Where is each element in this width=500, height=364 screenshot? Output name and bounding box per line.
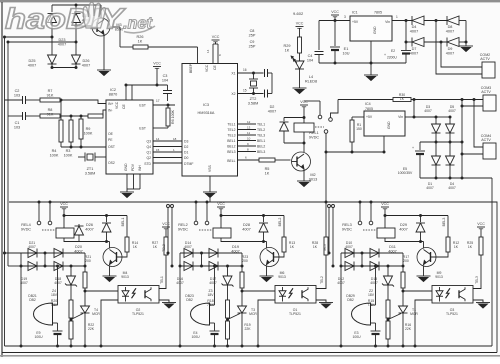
- wire R26 feed vertical: [119, 27, 121, 47]
- svg-text:DB2: DB2: [29, 298, 36, 302]
- node CH3 contact b: [369, 221, 373, 225]
- svg-text:VCC: VCC: [477, 222, 485, 226]
- svg-text:TEL3: TEL3: [257, 133, 265, 137]
- svg-text:D4: D4: [412, 25, 417, 29]
- wire IC4 Vin lead: [405, 116, 414, 118]
- svg-text:DTMF: DTMF: [184, 162, 193, 166]
- wire L2 to ch1 row2: [8, 265, 21, 267]
- svg-text:BEL1: BEL1: [257, 139, 265, 143]
- diode D19: [28, 262, 37, 271]
- junction O1 rail: [257, 345, 260, 348]
- svg-text:D23: D23: [59, 38, 66, 42]
- svg-text:1K: 1K: [454, 245, 459, 249]
- wire D26 bottom lead: [75, 64, 77, 68]
- junction CH2 mid row2: [200, 265, 203, 268]
- junction CH3 contact2 rail: [370, 201, 373, 204]
- wire CH1 bell bottom terminal: [53, 322, 58, 324]
- wire CH3 vcc top rail: [385, 215, 448, 217]
- wire R1 top lead: [351, 117, 353, 120]
- wire R6 bottom lead: [167, 126, 169, 128]
- diode D9: [447, 38, 459, 47]
- wire D23 to D25: [51, 23, 53, 56]
- wire CH3 contact1 stem: [359, 202, 361, 221]
- wire R16 to rail: [387, 339, 389, 346]
- svg-text:14: 14: [156, 137, 160, 141]
- wire VCC stem REL1: [303, 107, 305, 123]
- svg-text:CE: CE: [213, 65, 217, 70]
- wire CH1 flyback top lead: [106, 216, 108, 223]
- thyristor T1: [399, 306, 408, 313]
- wire C4 top lead: [318, 21, 320, 51]
- power VCC symbol REL2: [217, 202, 225, 209]
- wire VCC CE join: [213, 43, 218, 45]
- capacitor E5: [415, 151, 425, 154]
- junction E3 rail: [374, 345, 377, 348]
- wire R14 to base: [117, 252, 128, 257]
- wire bridge top rail: [52, 4, 101, 6]
- wire R9 bottom lead: [80, 139, 82, 147]
- svg-text:TEL2: TEL2: [320, 276, 324, 284]
- junction CH2 contact1 rail: [195, 201, 198, 204]
- wire M3 collector: [100, 5, 102, 18]
- svg-text:1K: 1K: [265, 171, 270, 175]
- junction bridge MR: [449, 141, 452, 144]
- svg-text:D0: D0: [184, 156, 188, 160]
- resistor R5a: [88, 114, 103, 118]
- junction E6 top: [405, 19, 408, 22]
- svg-text:BEL3: BEL3: [227, 150, 235, 154]
- node CH2 feed1 terminal: [167, 205, 170, 208]
- wire REL1 dashed actuator: [315, 126, 324, 128]
- junction CH2 contact2 rail: [206, 201, 209, 204]
- wire E4 to rail: [214, 334, 216, 346]
- label IC3 pin numbers top: [206, 49, 222, 56]
- resistor R18: [226, 300, 230, 318]
- svg-text:25P: 25P: [249, 44, 256, 48]
- wire C9 right lead: [268, 93, 273, 95]
- svg-text:haoDIY: haoDIY: [5, 4, 126, 36]
- wire net TEL2: [238, 129, 257, 131]
- wire O2 cathode return: [101, 300, 118, 346]
- diode D4: [412, 16, 424, 25]
- resistor R5: [259, 158, 275, 162]
- svg-text:100U: 100U: [191, 335, 200, 339]
- wire E5 bottom lead: [419, 154, 421, 178]
- resistor R21: [83, 272, 87, 288]
- svg-text:4007: 4007: [85, 227, 93, 231]
- junction CH2 feed1 row1: [167, 252, 170, 255]
- junction CH3 mid row2: [361, 265, 364, 268]
- watermark hand glyph: [83, 2, 105, 28]
- node REL1 contact NO: [329, 118, 333, 122]
- junction T3 rail: [241, 345, 244, 348]
- svg-text:4007: 4007: [345, 245, 353, 249]
- node CH3 contact a: [358, 221, 362, 225]
- wire VCC stem 5V: [334, 17, 336, 21]
- wire D4b top lead: [449, 142, 451, 156]
- svg-text:18V: 18V: [51, 293, 58, 297]
- svg-text:IC2: IC2: [110, 88, 116, 92]
- ground M9: [417, 276, 431, 282]
- junction E9 rail: [56, 345, 59, 348]
- diode D23: [48, 14, 57, 23]
- wire bridge feed vertical: [461, 100, 463, 179]
- wire COM3 pin2 feed: [462, 105, 483, 107]
- wire CH3 dashed actuator: [363, 229, 377, 231]
- diode D8: [447, 16, 459, 25]
- wire stack mid: [70, 318, 72, 321]
- svg-text:VCC: VCC: [296, 22, 304, 26]
- svg-text:103: 103: [14, 93, 20, 97]
- resistor R6: [166, 108, 170, 126]
- capacitor C9: [265, 90, 268, 98]
- wire R5 to M2 base: [275, 159, 291, 161]
- svg-text:4007: 4007: [426, 186, 434, 190]
- wire L4 to ground: [299, 69, 301, 88]
- wire D4 to D8: [424, 20, 447, 22]
- svg-text:C8: C8: [250, 29, 255, 33]
- wire CH1 scr branch top: [84, 253, 86, 272]
- svg-text:200: 200: [85, 259, 91, 263]
- svg-text:1K: 1K: [290, 245, 295, 249]
- wire R26 left lead: [120, 46, 133, 48]
- svg-text:18V: 18V: [207, 293, 214, 297]
- svg-text:D2: D2: [184, 145, 188, 149]
- svg-text:D25: D25: [29, 59, 36, 63]
- wire R23 to SCR: [241, 288, 243, 306]
- svg-text:R8: R8: [48, 108, 53, 112]
- junction CH3 opto tap: [402, 290, 405, 293]
- wire bridge bottom rail: [420, 177, 492, 179]
- svg-text:4007: 4007: [28, 63, 36, 67]
- crystal ZT1: [85, 153, 95, 162]
- wire input row2 left: [8, 115, 23, 117]
- svg-text:REL2: REL2: [178, 223, 188, 227]
- wire net TEL3: [238, 134, 257, 136]
- bell DB29: [352, 303, 371, 325]
- diode D25: [48, 55, 57, 64]
- junction bridge feed bottom: [461, 177, 464, 180]
- resistor R1: [350, 120, 354, 142]
- wire CH3 scr branch top: [402, 253, 404, 272]
- svg-text:TEL1: TEL1: [160, 276, 164, 284]
- wire E1 bottom lead: [334, 50, 336, 63]
- wire CH2 collector stub: [266, 242, 268, 249]
- junction O3 rail: [414, 345, 417, 348]
- svg-text:D26: D26: [83, 59, 90, 63]
- wire ZT1 right lead: [95, 156, 106, 158]
- wire to IN-: [103, 110, 106, 116]
- wire net BEL3: [238, 151, 257, 153]
- svg-text:+: +: [384, 53, 386, 57]
- wire REL1 contact feed: [304, 100, 320, 102]
- power VCC symbol LED: [296, 22, 304, 29]
- op-amp U-IC3 box HM9316A: [182, 64, 238, 177]
- junction row2 node: [405, 41, 408, 44]
- junction T1 rail: [402, 345, 405, 348]
- capacitor C8: [265, 69, 268, 77]
- wire M3 base: [76, 25, 92, 27]
- wire R3 bottom lead: [70, 142, 72, 147]
- svg-text:MCR: MCR: [249, 312, 257, 316]
- svg-text:ACTV: ACTV: [481, 90, 491, 94]
- svg-text:TEL3: TEL3: [227, 134, 235, 138]
- svg-text:VCC: VCC: [212, 35, 220, 39]
- ground M2: [297, 181, 311, 187]
- diode D3: [432, 124, 441, 133]
- wire R6 top lead: [167, 105, 169, 108]
- wire CH2 bell top terminal: [210, 304, 215, 306]
- svg-text:STD: STD: [144, 162, 151, 166]
- capacitor E1: [330, 47, 340, 50]
- junction T4 rail: [84, 345, 87, 348]
- transistor M9: [417, 248, 436, 267]
- junction E4 rail: [213, 345, 216, 348]
- junction CH3 contact1 rail: [359, 201, 362, 204]
- junction CH2 flyback top: [262, 214, 265, 217]
- junction CH3 feed1 row1: [328, 252, 331, 255]
- junction R9 top: [80, 115, 83, 118]
- wire CH3 emitter: [423, 266, 425, 277]
- wire CH1 collector stub: [109, 242, 111, 249]
- svg-text:TLP521: TLP521: [446, 312, 458, 316]
- svg-text:25P: 25P: [249, 33, 256, 37]
- junction M2 collector node: [303, 142, 306, 145]
- svg-text:C3: C3: [163, 74, 168, 78]
- junction CH2 gate node: [226, 318, 229, 321]
- svg-text:TEL2: TEL2: [257, 128, 265, 132]
- wire E2 top lead: [405, 21, 407, 51]
- capacitor E4: [210, 331, 220, 334]
- svg-text:GND: GND: [373, 26, 377, 34]
- wire right return vertical: [491, 178, 493, 346]
- wire CH3 flyback bottom lead: [420, 232, 422, 242]
- junction R16 rail: [387, 345, 390, 348]
- wire CH3 to opto anode: [403, 290, 432, 292]
- svg-text:1K: 1K: [133, 245, 138, 249]
- junction CH2 rail bottom: [179, 345, 182, 348]
- wire E9 to rail: [57, 334, 59, 346]
- wire CH3 contact2 stem: [370, 202, 372, 221]
- junction bridge TL: [435, 116, 438, 119]
- wire D2 vertical top: [283, 118, 285, 122]
- svg-text:BEL2: BEL2: [278, 218, 282, 227]
- junction CH1 flyback top: [105, 214, 108, 217]
- diode D13: [370, 262, 379, 271]
- svg-text:1000/35V: 1000/35V: [398, 171, 413, 175]
- svg-text:100K: 100K: [64, 153, 73, 157]
- resistor R12: [446, 237, 450, 252]
- svg-text:+: +: [412, 146, 414, 150]
- wire C1 to R8: [26, 115, 41, 117]
- svg-text:L4: L4: [309, 75, 313, 79]
- wire D1 top lead: [435, 142, 437, 156]
- svg-text:BEL3: BEL3: [442, 218, 446, 227]
- crystal ZT2: [249, 79, 258, 88]
- wire data bus DTMF: [153, 162, 182, 164]
- wire R29 to L4: [299, 53, 301, 61]
- svg-text:9-602: 9-602: [293, 11, 304, 16]
- wire L2 to bridge: [8, 41, 76, 43]
- junction REL2 vcc node: [220, 214, 223, 217]
- wire D25 bottom lead: [51, 64, 53, 68]
- wire switched VCC down: [325, 133, 327, 237]
- wire ZT1 left lead: [78, 156, 85, 158]
- ground IC3 VSS: [203, 192, 217, 198]
- svg-text:104: 104: [307, 58, 313, 62]
- svg-text:9013: 9013: [121, 275, 129, 279]
- svg-text:REL4: REL4: [21, 223, 31, 227]
- svg-text:9VDC: 9VDC: [342, 227, 352, 231]
- wire E2 bottom lead: [405, 54, 407, 64]
- wire CH2 feed2: [171, 208, 173, 267]
- capacitor C4: [315, 52, 324, 55]
- wire CH2 row2: [180, 265, 242, 267]
- wire crystal caps join: [271, 73, 273, 94]
- wire BEEP pin lead: [197, 47, 199, 64]
- junction bridge bottom right: [75, 66, 78, 69]
- power VCC symbol REL4: [60, 202, 68, 209]
- wire CH2 left rail: [179, 253, 181, 346]
- svg-text:IC3: IC3: [203, 103, 209, 107]
- svg-text:D28: D28: [243, 223, 250, 227]
- connector COM2 box: [482, 62, 495, 78]
- junction REL4 vcc node: [63, 214, 66, 217]
- svg-text:REL3: REL3: [342, 223, 352, 227]
- wire CH1 row1: [21, 252, 85, 254]
- junction 5V rail: [334, 19, 337, 22]
- wire IC3 CE pin up: [217, 44, 219, 64]
- wire CH2 bell to cap: [214, 323, 216, 331]
- node REL1 contact NC: [318, 115, 322, 119]
- svg-text:9013: 9013: [278, 275, 286, 279]
- wire phone line L1 vertical: [4, 37, 6, 346]
- wire Vin row1: [392, 20, 412, 22]
- op-amp U-O2 TLP521: [118, 286, 159, 304]
- wire T4 gate: [71, 314, 83, 320]
- svg-text:C1: C1: [15, 121, 20, 125]
- wire E3 to rail: [375, 334, 377, 346]
- svg-text:DB2: DB2: [347, 298, 354, 302]
- wire R25 vcc lead: [480, 229, 482, 237]
- svg-text:4007: 4007: [410, 29, 418, 33]
- diode D18: [54, 262, 63, 271]
- wire CH3 mid vertical: [361, 253, 363, 266]
- svg-text:E1: E1: [344, 47, 349, 51]
- wire IC3 VSS pin down: [209, 176, 211, 192]
- junction com2 tap2: [440, 41, 443, 44]
- power VCC symbol R25: [477, 222, 485, 229]
- wire R26 to BEEP: [148, 46, 198, 48]
- op-amp U-O3 TLP521: [432, 286, 473, 304]
- svg-text:9013: 9013: [435, 275, 443, 279]
- svg-text:91K: 91K: [47, 112, 54, 116]
- zener Z4: [65, 276, 77, 287]
- diode D20: [54, 249, 63, 258]
- svg-text:EST: EST: [139, 104, 146, 108]
- svg-text:HM9316A: HM9316A: [198, 111, 215, 115]
- wire REL1 coil to M2 collector: [303, 132, 305, 152]
- border bottom outer: [0, 355, 500, 357]
- svg-text:TEL3: TEL3: [323, 244, 327, 252]
- wire CH1 contact1 stem: [38, 202, 40, 221]
- svg-text:91K: 91K: [47, 93, 54, 97]
- wire R28 to opto collector: [316, 255, 326, 289]
- wire Z4 to R20: [70, 285, 72, 300]
- wire R27 to opto collector: [159, 255, 166, 289]
- wire Z3 to R18: [227, 285, 229, 300]
- diode D17: [209, 262, 218, 271]
- wire data bus D0: [153, 157, 182, 159]
- wire Z3 top lead: [227, 266, 229, 276]
- connector COM4 box: [483, 143, 496, 159]
- svg-text:D19: D19: [232, 245, 239, 249]
- transistor M4: [103, 248, 122, 267]
- wire IC1 output rail: [319, 20, 350, 22]
- svg-text:ZT2: ZT2: [250, 97, 257, 101]
- svg-text:BEL1: BEL1: [121, 218, 125, 227]
- svg-text:10: 10: [247, 137, 251, 141]
- junction D24 node: [75, 41, 78, 44]
- wire net BEL1: [238, 140, 257, 142]
- svg-text:8870: 8870: [109, 92, 117, 96]
- wire CH1 bell to cap: [57, 323, 59, 331]
- junction D23 node: [51, 36, 54, 39]
- resistor R28: [324, 237, 328, 255]
- wire IC2 gnd stem: [126, 189, 128, 192]
- wire COM4 pin2 feed: [462, 153, 483, 155]
- svg-text:1K: 1K: [285, 48, 290, 52]
- wire CH2 scr branch top: [241, 253, 243, 272]
- resistor R9: [79, 119, 83, 139]
- wire ZT2 top lead: [253, 73, 255, 79]
- wire T4 cathode: [84, 313, 86, 346]
- node REL1 contact common: [324, 130, 328, 134]
- svg-text:Q4: Q4: [146, 145, 151, 149]
- wire VCC rail to C3: [126, 84, 168, 86]
- border left frame: [1, 2, 3, 357]
- svg-text:18V: 18V: [368, 293, 375, 297]
- resistor R13: [282, 237, 286, 252]
- junction IC2 VCC: [125, 84, 128, 87]
- wire D2 top lead: [284, 117, 304, 119]
- wire IC4 5V lead: [352, 116, 364, 118]
- svg-text:R7: R7: [48, 89, 53, 93]
- wire R14 top lead: [126, 216, 128, 238]
- label IC3 pin names: [184, 63, 236, 172]
- junction CH3 collector node: [419, 240, 422, 243]
- power VCC symbol 5V: [331, 10, 339, 17]
- LED L4: [291, 56, 297, 63]
- svg-text:7.5K: 7.5K: [51, 303, 59, 307]
- junction COM4 tap: [473, 98, 476, 101]
- svg-text:VCC: VCC: [60, 202, 68, 206]
- svg-text:100K: 100K: [84, 131, 93, 135]
- wire R30 to COM3: [411, 99, 483, 101]
- svg-text:12: 12: [247, 120, 251, 124]
- resistor R20: [69, 300, 73, 318]
- wire IC4 GND pin down: [383, 136, 385, 152]
- wire phone line L2 vertical: [7, 42, 9, 266]
- border right frame: [496, 202, 498, 353]
- wire CH1 emitter: [109, 266, 111, 277]
- wire CH3 feed2: [332, 208, 334, 267]
- capacitor E9: [53, 331, 63, 334]
- svg-text:1K: 1K: [468, 245, 473, 249]
- svg-text:D8: D8: [448, 25, 453, 29]
- junction R4 top: [60, 99, 63, 102]
- wire E5 top lead: [419, 142, 421, 150]
